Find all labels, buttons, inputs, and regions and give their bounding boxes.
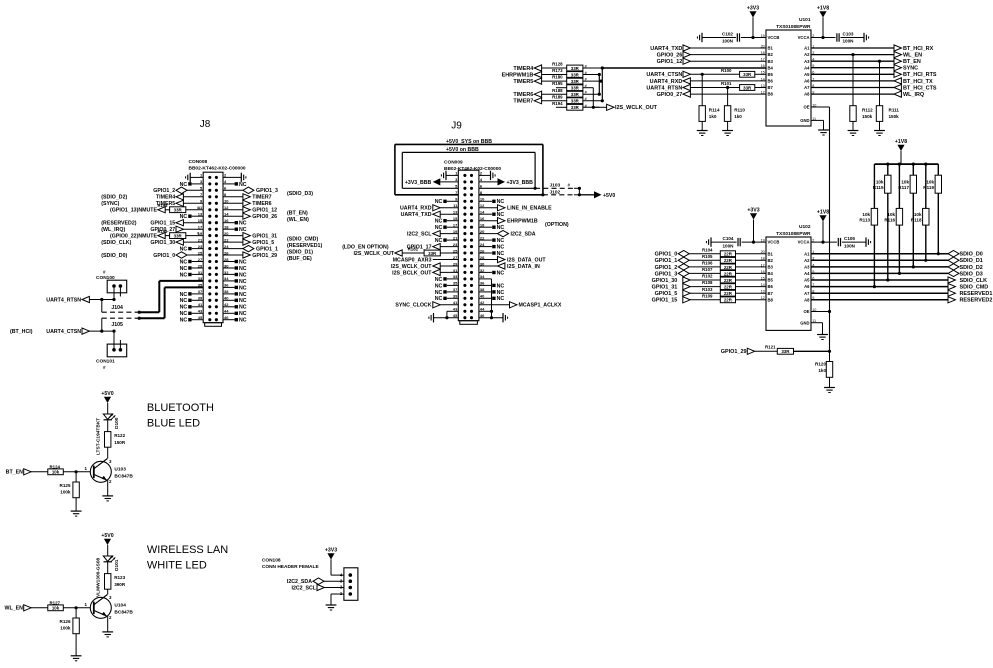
svg-text:GPIO0_26: GPIO0_26 xyxy=(657,53,683,59)
svg-text:+5V0: +5V0 xyxy=(101,533,113,539)
power +5V0 at D100 xyxy=(101,391,113,414)
svg-text:#: # xyxy=(103,269,106,274)
pin J9-10 NC xyxy=(479,199,504,205)
svg-text:R115: R115 xyxy=(873,185,884,190)
svg-text:+5V0: +5V0 xyxy=(603,193,615,199)
svg-text:R112: R112 xyxy=(862,108,873,113)
net +5V0_SYS on BBB loop xyxy=(395,139,543,195)
svg-text:22R: 22R xyxy=(724,271,733,276)
svg-text:R109: R109 xyxy=(702,293,713,298)
svg-text:R189: R189 xyxy=(552,94,563,99)
svg-text:C104: C104 xyxy=(723,236,734,241)
power +1V8 at U101 xyxy=(817,6,829,40)
svg-text:BC847B: BC847B xyxy=(114,473,133,479)
svg-text:I2S_BCLK_OUT: I2S_BCLK_OUT xyxy=(392,270,432,276)
svg-text:10k: 10k xyxy=(862,212,870,217)
svg-text:NC: NC xyxy=(435,283,443,289)
svg-text:22R: 22R xyxy=(724,285,733,290)
net +5V0 on BBB loop xyxy=(402,147,535,189)
port GPIO1_3 / resistor R107 22R xyxy=(655,267,766,277)
svg-text:33R: 33R xyxy=(428,251,437,256)
port EHRPWM1B at J9 pin 16 xyxy=(479,218,569,229)
wire J8 pin35 to jumper J105 xyxy=(139,287,203,318)
wire TIMER4 net to U101 B4 xyxy=(602,67,766,69)
svg-text:100N: 100N xyxy=(722,39,734,44)
resistor R120 1k0 pulldown xyxy=(815,351,835,392)
port UART4_TXD at J9 pin 13 xyxy=(401,211,459,218)
svg-text:R120: R120 xyxy=(815,362,826,367)
svg-text:TXS0108EPWR: TXS0108EPWR xyxy=(776,231,811,237)
svg-text:(SDIO_CMD): (SDIO_CMD) xyxy=(287,237,318,243)
svg-text:D101: D101 xyxy=(114,559,120,571)
resistor R127 10k xyxy=(48,601,91,611)
port UART4_RTSN xyxy=(46,296,115,303)
connector J9 CON009 header xyxy=(444,121,501,325)
svg-text:GND: GND xyxy=(800,320,809,325)
pin J8-31 NC xyxy=(180,272,204,278)
pin J8-32 NC xyxy=(223,272,247,278)
pin J8-36 NC xyxy=(223,285,247,291)
svg-text:R108: R108 xyxy=(702,280,713,285)
svg-text:I2C2_SCL: I2C2_SCL xyxy=(407,232,432,238)
svg-text:NC: NC xyxy=(497,245,505,251)
port NMUTE / resistor R199 33R xyxy=(110,229,203,240)
svg-text:WIRELESS LAN: WIRELESS LAN xyxy=(147,544,228,556)
svg-text:B3: B3 xyxy=(768,59,774,64)
port I2S_WCLK_OUT at J9 pin 29 xyxy=(391,263,458,270)
jumper J104 xyxy=(102,300,141,314)
resistor R124 10k xyxy=(48,465,91,475)
svg-text:NC: NC xyxy=(180,292,188,298)
svg-text:(BT_HCI): (BT_HCI) xyxy=(10,329,33,335)
pin J9-9 NC xyxy=(435,199,459,205)
resistor R114 1k0 pulldown xyxy=(697,73,720,136)
port TIMER7 at J8 pin 8 xyxy=(223,194,272,201)
svg-text:GPIO1_2: GPIO1_2 xyxy=(655,265,678,271)
port GPIO1_3 at J8 pin 6 xyxy=(223,187,313,197)
svg-text:#: # xyxy=(197,232,199,236)
svg-text:NC: NC xyxy=(239,259,247,265)
svg-text:TIMER7: TIMER7 xyxy=(513,99,533,105)
resistor R122 150R xyxy=(105,432,126,448)
svg-text:UART4_RXD: UART4_RXD xyxy=(650,79,683,85)
port TIMER5 at J8 pin 9 xyxy=(101,200,203,207)
port WL_IRQ xyxy=(811,91,924,98)
pin J8-13 NC xyxy=(180,214,204,220)
svg-text:SDIO_D1: SDIO_D1 xyxy=(960,258,983,264)
svg-text:R105: R105 xyxy=(702,254,713,259)
svg-text:33R: 33R xyxy=(743,72,752,77)
svg-text:U101: U101 xyxy=(799,17,811,23)
power +3V3_BBB left xyxy=(405,178,458,186)
pin J8-29 NC xyxy=(180,266,204,272)
svg-text:I2S_WCLK_OUT: I2S_WCLK_OUT xyxy=(615,105,658,111)
port NMUTE / resistor R198 33R xyxy=(110,203,203,214)
svg-text:100N: 100N xyxy=(723,243,735,248)
port BT_HCI_CTS xyxy=(811,84,937,91)
svg-text:UART4_RXD: UART4_RXD xyxy=(400,206,432,212)
svg-text:22R: 22R xyxy=(724,298,733,303)
svg-text:GPIO1_12: GPIO1_12 xyxy=(252,208,277,214)
svg-text:R104: R104 xyxy=(702,247,713,252)
svg-text:NC: NC xyxy=(435,296,443,302)
svg-text:NC: NC xyxy=(435,238,443,244)
svg-text:NC: NC xyxy=(497,238,505,244)
resistor R128 33R xyxy=(513,62,602,72)
svg-text:SDIO_CLK: SDIO_CLK xyxy=(960,278,988,284)
wire J8 pin33 to jumper J104 xyxy=(139,281,203,312)
svg-text:OE: OE xyxy=(803,105,809,110)
svg-text:R118: R118 xyxy=(911,218,922,223)
svg-text:BB02-KT462-K02-C00000: BB02-KT462-K02-C00000 xyxy=(444,166,501,172)
port SDIO_CMD xyxy=(811,284,988,291)
svg-text:VCCA: VCCA xyxy=(798,35,810,40)
pin J9-26 NC xyxy=(479,251,504,257)
svg-text:10k: 10k xyxy=(901,179,909,184)
svg-text:VCCA: VCCA xyxy=(798,240,810,245)
resistor R173 33R xyxy=(502,68,600,78)
svg-text:TIMER4: TIMER4 xyxy=(156,195,175,201)
svg-text:BB02-KT462-K02-C00000: BB02-KT462-K02-C00000 xyxy=(189,166,246,172)
svg-text:OE: OE xyxy=(803,309,809,314)
svg-text:NC: NC xyxy=(180,266,188,272)
svg-text:A7: A7 xyxy=(804,291,810,296)
ground at J9 pins 45 46 xyxy=(429,313,508,322)
svg-text:GPIO1_29: GPIO1_29 xyxy=(252,253,277,259)
svg-text:(SDIO_D0): (SDIO_D0) xyxy=(101,253,127,259)
port MCASP1_ACLKX at J9 pin 42 xyxy=(479,302,562,309)
svg-text:SYNC_CLOCK: SYNC_CLOCK xyxy=(395,303,431,309)
svg-text:R107: R107 xyxy=(702,267,713,272)
svg-text:WL_EN: WL_EN xyxy=(903,53,922,59)
svg-text:D100: D100 xyxy=(114,417,120,429)
power +5V0 at D101 xyxy=(101,533,113,556)
svg-text:R117: R117 xyxy=(898,185,909,190)
svg-text:+3V3: +3V3 xyxy=(747,208,759,214)
svg-text:R125: R125 xyxy=(60,483,71,488)
pin J8-42 NC xyxy=(223,305,247,311)
jumper J102 xyxy=(541,188,581,196)
svg-text:GPIO1_15: GPIO1_15 xyxy=(150,221,175,227)
pin J8-30 NC xyxy=(223,266,247,272)
resistor R180 33R xyxy=(513,75,599,85)
svg-text:TIMER6: TIMER6 xyxy=(252,201,271,207)
pin J9-37 NC xyxy=(435,290,459,296)
port GPIO1_12 xyxy=(657,58,766,65)
svg-text:NC: NC xyxy=(239,318,247,324)
svg-text:GPIO1_1: GPIO1_1 xyxy=(256,247,278,253)
svg-text:NC: NC xyxy=(497,283,505,289)
port GPIO1_15 / resistor R109 22R xyxy=(652,293,766,303)
svg-text:(OPTION): (OPTION) xyxy=(545,222,569,228)
port GPIO1_31 / resistor R108 22R xyxy=(652,280,766,290)
svg-text:B7: B7 xyxy=(768,291,774,296)
svg-text:10k: 10k xyxy=(914,212,922,217)
resistor R188 33R xyxy=(513,88,599,98)
svg-text:+3V3: +3V3 xyxy=(325,548,337,554)
pin J8-43 NC xyxy=(180,311,204,317)
pin J9-35 NC xyxy=(435,283,459,289)
svg-text:GPIO1_12: GPIO1_12 xyxy=(657,59,683,65)
port SDIO_D0 xyxy=(811,251,983,258)
svg-text:I2S_WCLK_OUT: I2S_WCLK_OUT xyxy=(391,264,432,270)
svg-text:B4: B4 xyxy=(768,65,774,70)
svg-text:R126: R126 xyxy=(60,619,71,624)
svg-text:+3V3_BBB: +3V3_BBB xyxy=(405,180,432,186)
svg-text:R188: R188 xyxy=(552,88,563,93)
svg-text:10k: 10k xyxy=(887,212,895,217)
svg-text:A5: A5 xyxy=(804,72,810,77)
svg-text:22R: 22R xyxy=(724,291,733,296)
svg-text:(GPIO1_13)NMUTE: (GPIO1_13)NMUTE xyxy=(110,208,157,214)
svg-text:SYNC: SYNC xyxy=(903,66,918,72)
port I2C2_SCL at CON108 xyxy=(291,584,343,591)
svg-text:B8: B8 xyxy=(768,297,774,302)
port BT_HCI_TX xyxy=(811,78,933,85)
svg-text:GPIO1_30: GPIO1_30 xyxy=(652,278,678,284)
svg-text:22R: 22R xyxy=(724,265,733,270)
svg-text:BT_HCI_RX: BT_HCI_RX xyxy=(903,46,934,52)
port GPIO0_26 xyxy=(657,52,766,59)
svg-text:390R: 390R xyxy=(114,582,126,587)
port GPIO1_17 at J9 pin 23 xyxy=(407,244,459,251)
resistor R111 150k pulldown xyxy=(874,61,899,135)
resistor R119 10k pullup xyxy=(923,164,941,254)
svg-text:GPIO0_26: GPIO0_26 xyxy=(252,214,277,220)
svg-text:B4: B4 xyxy=(768,271,774,276)
pin J9-14 NC xyxy=(479,212,504,218)
port GPIO1_5 at J8 pin 22 xyxy=(223,239,322,249)
svg-text:NC: NC xyxy=(435,277,443,283)
svg-text:GPIO1_31: GPIO1_31 xyxy=(652,285,678,291)
resistor R125 100k pulldown xyxy=(60,472,82,516)
port TIMER6 at J8 pin 10 xyxy=(223,200,272,207)
svg-text:U104: U104 xyxy=(114,602,126,608)
port I2S_DATA_IN at J9 pin 30 xyxy=(479,263,540,270)
pin J9-24 NC xyxy=(479,245,504,251)
connector CON101 xyxy=(96,331,127,370)
wire U101 OE to OE bus xyxy=(811,107,830,350)
svg-text:R103: R103 xyxy=(702,287,713,292)
svg-text:100N: 100N xyxy=(843,39,855,44)
svg-text:+1V8: +1V8 xyxy=(817,210,829,216)
svg-text:NC: NC xyxy=(239,285,247,291)
ground at J8 pins 1 2 xyxy=(186,173,246,182)
svg-text:NC: NC xyxy=(239,266,247,272)
svg-text:A3: A3 xyxy=(804,265,810,270)
svg-text:SDIO_CMD: SDIO_CMD xyxy=(960,285,989,291)
svg-text:+3V3_BBB: +3V3_BBB xyxy=(507,180,534,186)
ground at U101 GND pin xyxy=(811,120,829,135)
power +3V3 at U101 xyxy=(747,6,759,40)
svg-text:NC: NC xyxy=(180,272,188,278)
resistor R123 390R xyxy=(105,574,126,590)
svg-text:A4: A4 xyxy=(804,271,810,276)
pin J8-23 NC xyxy=(180,247,204,253)
svg-text:(SDIO_D3): (SDIO_D3) xyxy=(287,191,313,197)
port BT_HCI_RTS xyxy=(811,71,937,78)
svg-text:UART4_TXD: UART4_TXD xyxy=(650,46,682,52)
port I2C2_SDA at J9 pin 20 xyxy=(479,230,536,237)
svg-text:NC: NC xyxy=(180,182,188,188)
connector J8 CON008 header xyxy=(189,119,246,326)
svg-text:#: # xyxy=(568,182,571,187)
svg-text:NC: NC xyxy=(239,298,247,304)
svg-text:B5: B5 xyxy=(768,72,774,77)
svg-text:B6: B6 xyxy=(768,79,774,84)
svg-text:VCCB: VCCB xyxy=(768,35,780,40)
svg-text:R110: R110 xyxy=(734,108,745,113)
svg-text:GPIO1_5: GPIO1_5 xyxy=(655,291,678,297)
port MCASP0_AXR3 at J9 pin 27 xyxy=(393,257,459,263)
pin J9-38 NC xyxy=(479,290,504,296)
svg-text:B8: B8 xyxy=(768,92,774,97)
LED D101 VLMW1300-GS08 xyxy=(96,556,121,597)
svg-text:(GPIO0_22)NMUTE: (GPIO0_22)NMUTE xyxy=(110,234,157,240)
power +3V3 at CON108 xyxy=(325,548,344,576)
svg-text:R173: R173 xyxy=(552,68,563,73)
svg-text:33R: 33R xyxy=(571,86,580,91)
pin J8-3 NC xyxy=(180,182,204,188)
port GPIO1_2 at J8 pin 5 xyxy=(153,187,203,194)
svg-text:SDIO_D0: SDIO_D0 xyxy=(960,252,983,258)
port GPIO1_0 / resistor R104 22R xyxy=(655,247,766,257)
svg-text:B1: B1 xyxy=(768,251,774,256)
svg-text:33R: 33R xyxy=(571,105,580,110)
svg-text:GPIO1_2: GPIO1_2 xyxy=(153,188,175,194)
pin J9-33 NC xyxy=(435,277,459,283)
svg-text:J105: J105 xyxy=(111,322,123,328)
svg-text:+5V0 on BBB: +5V0 on BBB xyxy=(446,147,479,153)
svg-text:I2S_WCLK_OUT: I2S_WCLK_OUT xyxy=(353,251,394,257)
wire J9 pin 34 to ground bus xyxy=(479,279,492,318)
svg-text:+1V8: +1V8 xyxy=(817,6,829,12)
pin J9-15 NC xyxy=(435,219,459,225)
LED D100 LTST-C194TBKT xyxy=(96,414,121,455)
svg-text:1k0: 1k0 xyxy=(818,368,826,373)
svg-text:NC: NC xyxy=(435,225,443,231)
svg-text:1k0: 1k0 xyxy=(709,114,717,119)
port GPIO1_2 / resistor R106 22R xyxy=(655,261,766,271)
power +3V3 at U102 xyxy=(747,208,759,244)
power +1V8 at pullup array xyxy=(874,139,938,164)
svg-text:150R: 150R xyxy=(114,440,126,445)
text BLUETOOTH BLUE LED title xyxy=(147,402,214,430)
svg-text:33R: 33R xyxy=(571,92,580,97)
pin J8-34 NC xyxy=(223,279,247,285)
svg-text:GPIO1_31: GPIO1_31 xyxy=(252,234,277,240)
svg-text:A1: A1 xyxy=(804,46,810,51)
svg-text:GPIO0_27: GPIO0_27 xyxy=(657,92,683,98)
svg-text:RESERVED1: RESERVED1 xyxy=(960,291,993,297)
transistor U103 BC847B xyxy=(85,447,134,501)
pin J8-41 NC xyxy=(180,305,204,311)
op-amp U102 TXS0108EPWR level shifter xyxy=(761,224,817,331)
port I2C2_SCL at J9 pin 19 xyxy=(407,231,458,238)
port GPIO0_27 at J8 pin 17 xyxy=(101,226,203,233)
svg-text:GPIO1_3: GPIO1_3 xyxy=(256,188,278,194)
svg-text:33R: 33R xyxy=(174,208,183,213)
pin J9-36 NC xyxy=(479,283,504,289)
port I2C2_SDA at CON108 xyxy=(287,578,344,585)
svg-text:MCASP0_AXR3: MCASP0_AXR3 xyxy=(393,257,432,263)
svg-text:B3: B3 xyxy=(768,265,774,270)
port RESERVED1 xyxy=(811,290,992,297)
svg-text:A5: A5 xyxy=(804,278,810,283)
svg-text:33R: 33R xyxy=(571,73,580,78)
svg-text:10k: 10k xyxy=(876,179,884,184)
svg-text:NC: NC xyxy=(180,318,188,324)
port LINE_IN_ENABLE at J9 pin 12 xyxy=(479,205,552,212)
svg-text:100k: 100k xyxy=(60,490,71,495)
svg-text:R128: R128 xyxy=(552,62,563,67)
svg-text:J103: J103 xyxy=(550,182,561,188)
svg-text:+3V3: +3V3 xyxy=(747,6,759,12)
svg-text:A2: A2 xyxy=(804,52,810,57)
svg-text:A6: A6 xyxy=(804,79,810,84)
svg-text:(WL_IRQ): (WL_IRQ) xyxy=(101,227,125,233)
svg-text:10k: 10k xyxy=(52,470,60,475)
svg-text:BLUE LED: BLUE LED xyxy=(147,418,200,430)
jumper J105 xyxy=(102,317,141,332)
capacitor C105 100N xyxy=(811,236,871,248)
svg-text:NC: NC xyxy=(239,221,247,227)
port TIMER4 at J8 pin 7 xyxy=(101,194,203,201)
svg-text:LTST-C194TBKT: LTST-C194TBKT xyxy=(96,418,102,455)
port SDIO_CLK xyxy=(811,277,987,284)
capacitor C104 100N xyxy=(706,236,766,248)
pin J9-21 NC xyxy=(435,238,459,244)
svg-text:A6: A6 xyxy=(804,284,810,289)
svg-text:1k0: 1k0 xyxy=(734,114,742,119)
svg-text:VLMW1300-GS08: VLMW1300-GS08 xyxy=(96,557,102,597)
resistor R117 10k pullup xyxy=(898,163,916,267)
svg-text:BT_HCI_TX: BT_HCI_TX xyxy=(903,79,933,85)
svg-text:CON009: CON009 xyxy=(444,160,463,166)
pin J8-44 NC xyxy=(223,311,247,317)
pin J9-18 NC xyxy=(479,225,504,231)
port GPIO1_15 at J8 pin 15 xyxy=(101,220,203,227)
svg-text:+5V0: +5V0 xyxy=(101,391,113,397)
svg-text:UART4_RTSN: UART4_RTSN xyxy=(646,85,682,91)
transistor U104 BC847B xyxy=(85,589,134,637)
svg-text:BLUETOOTH: BLUETOOTH xyxy=(147,402,214,414)
port SYNC xyxy=(811,65,918,72)
svg-text:B2: B2 xyxy=(768,52,774,57)
svg-text:R114: R114 xyxy=(709,108,720,113)
svg-text:33R: 33R xyxy=(571,66,580,71)
svg-text:GPIO1_1: GPIO1_1 xyxy=(655,258,678,264)
svg-text:R111: R111 xyxy=(889,108,900,113)
svg-text:GPIO1_29: GPIO1_29 xyxy=(721,349,747,355)
svg-text:(SDIO_CLK): (SDIO_CLK) xyxy=(101,240,131,246)
svg-text:A3: A3 xyxy=(804,59,810,64)
svg-text:WL_EN: WL_EN xyxy=(5,606,24,612)
pin J8-39 NC xyxy=(180,298,204,304)
port I2S_BCLK_OUT at J9 pin 31 xyxy=(392,269,458,276)
port I2S_DATA_OUT at J9 pin 28 xyxy=(479,256,546,263)
svg-text:WHITE LED: WHITE LED xyxy=(147,560,207,572)
pin J9-32 NC xyxy=(479,270,504,276)
svg-text:GND: GND xyxy=(800,118,809,123)
svg-text:NC: NC xyxy=(180,305,188,311)
svg-text:#: # xyxy=(197,206,199,210)
pin J8-45 NC xyxy=(180,318,204,324)
svg-text:22R: 22R xyxy=(724,252,733,257)
svg-text:R113: R113 xyxy=(859,218,870,223)
svg-text:EHRPWM1B: EHRPWM1B xyxy=(502,73,534,79)
port UART4_RXD xyxy=(650,78,766,85)
